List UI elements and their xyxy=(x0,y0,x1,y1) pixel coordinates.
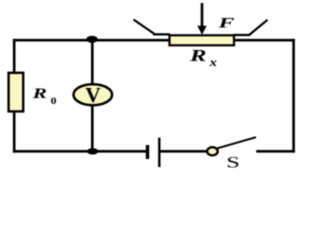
svg-text:0: 0 xyxy=(51,97,57,106)
svg-text:V: V xyxy=(85,83,101,107)
svg-text:F: F xyxy=(217,14,234,31)
svg-text:R: R xyxy=(189,46,207,65)
svg-text:R: R xyxy=(32,85,47,101)
svg-text:S: S xyxy=(226,155,240,171)
svg-text:x: x xyxy=(208,55,217,68)
